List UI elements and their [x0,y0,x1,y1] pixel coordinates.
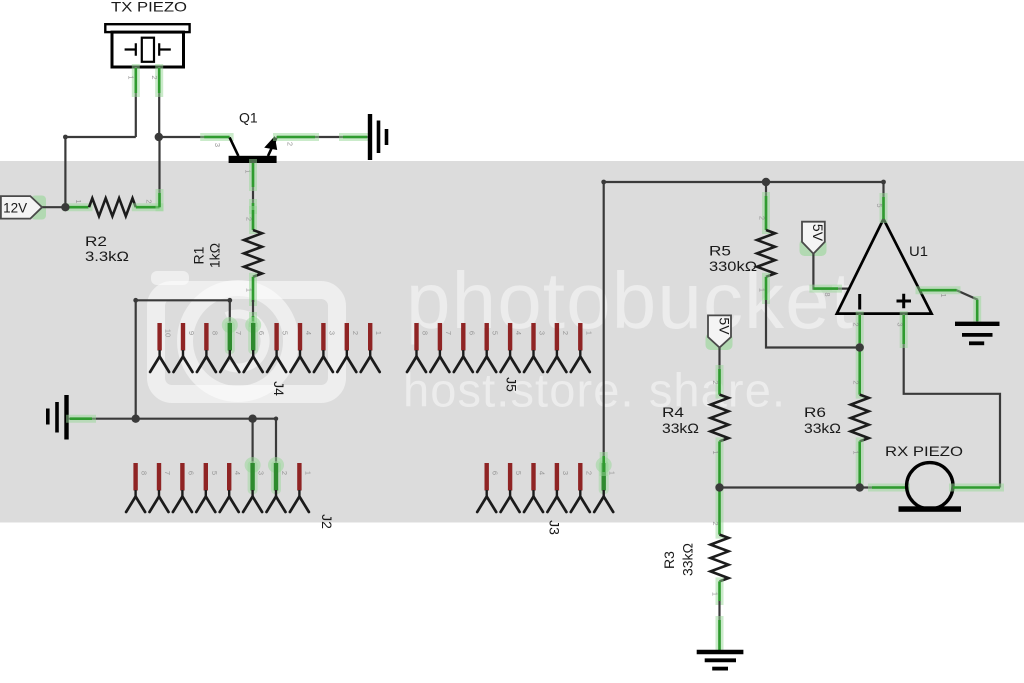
svg-text:7: 7 [234,331,243,335]
svg-text:9: 9 [187,331,196,335]
svg-text:33kΩ: 33kΩ [804,420,841,436]
svg-text:5V: 5V [716,317,732,335]
junction R5 top [762,178,770,186]
ground at R3 [697,652,744,669]
svg-text:10: 10 [164,329,173,337]
svg-text:5: 5 [514,471,523,475]
TX PIEZO pin 1 lead [127,67,136,137]
ground at J2 bus [48,395,67,440]
power flag 5V (R4 bias) [706,315,733,394]
TX PIEZO pin 2 lead [150,67,159,137]
resistor R2 [67,198,160,216]
svg-text:1: 1 [74,199,83,203]
svg-text:6: 6 [257,331,266,335]
resistor R4 [711,380,729,486]
ground at Q1 collector [370,114,387,160]
svg-text:8: 8 [140,471,149,475]
svg-text:1: 1 [711,592,720,596]
resistor R5 [757,182,775,300]
svg-text:33kΩ: 33kΩ [662,420,699,436]
wire RX piezo right [953,484,1000,492]
svg-text:J4: J4 [271,381,287,396]
svg-text:RX PIEZO: RX PIEZO [885,443,963,459]
wire R3 to ground [718,601,720,650]
svg-text:8: 8 [823,292,832,296]
power flag 5V (op-amp supply) [800,222,850,297]
svg-text:2: 2 [280,471,289,475]
junction TX pin 2 node [155,133,163,141]
wire top bus [604,181,884,183]
svg-text:1: 1 [758,288,767,292]
svg-text:5: 5 [491,331,500,335]
svg-text:3: 3 [213,143,222,147]
power flag 12V [1,196,66,220]
connector J5 [407,323,593,392]
svg-text:3: 3 [538,331,547,335]
svg-text:R2: R2 [85,233,107,249]
svg-text:3: 3 [561,471,570,475]
svg-text:1: 1 [939,293,948,297]
wire R2 pin 2 riser [158,137,160,207]
wire bus B to corner [253,417,279,421]
connector J4 [150,317,383,396]
svg-text:7: 7 [444,331,453,335]
wire divider bus [720,486,860,488]
svg-text:2: 2 [711,521,720,525]
svg-text:host.store. share.: host.store. share. [403,364,785,417]
resistor R6 [851,350,869,486]
wire R1 to J4 pin 6 [252,300,254,323]
svg-text:TX PIEZO: TX PIEZO [111,0,187,15]
svg-text:4: 4 [233,471,242,475]
svg-text:2: 2 [851,380,860,384]
svg-text:1: 1 [303,471,312,475]
svg-text:J2: J2 [319,514,335,529]
svg-text:1: 1 [851,450,860,454]
svg-text:J3: J3 [547,520,563,535]
svg-text:2: 2 [711,380,720,384]
wire node to Q1 emitter [159,136,230,138]
junction ground bus A [132,415,140,423]
svg-text:2: 2 [286,142,295,146]
wire bus A to B [136,418,253,420]
svg-text:2: 2 [584,471,593,475]
wire ground lead [69,418,136,420]
wire U1 non-inverting input to RX piezo [895,314,1000,488]
junction divider node [715,483,723,491]
svg-text:2: 2 [758,216,767,220]
svg-text:2: 2 [351,331,360,335]
svg-text:5: 5 [210,471,219,475]
wire 12V riser [64,137,66,207]
wire node to TX pin 1 [63,135,136,140]
svg-text:1: 1 [608,471,617,475]
resistor R3 [711,490,729,601]
piezo TX PIEZO [105,24,189,67]
wire Q1 base to R1 [252,163,254,229]
svg-text:2: 2 [245,217,254,221]
svg-text:1: 1 [245,288,254,292]
svg-text:5V: 5V [810,224,826,242]
svg-text:R6: R6 [804,404,826,420]
svg-text:1: 1 [584,331,593,335]
svg-text:3: 3 [257,471,266,475]
svg-text:5: 5 [875,203,884,207]
svg-text:2: 2 [561,331,570,335]
piezo RX PIEZO [899,463,962,512]
wire R5 to inverting node [766,300,860,348]
svg-text:1: 1 [711,450,720,454]
transistor Q1 [213,136,295,174]
svg-text:Q1: Q1 [239,110,258,126]
junction 12V node [61,203,69,211]
svg-text:8: 8 [421,331,430,335]
op-amp U1 [837,219,932,314]
svg-text:U1: U1 [909,243,928,259]
connector J3 [477,457,617,535]
svg-text:8: 8 [210,331,219,335]
svg-text:R5: R5 [709,243,731,259]
svg-text:3: 3 [327,331,336,335]
junction ground bus B [248,415,256,423]
wire drop to J2 pin 2 [275,419,277,463]
wire ground bus to J4 pin 7 [133,298,232,419]
wire U1 inverting input [851,314,860,348]
svg-text:12V: 12V [3,200,28,216]
svg-text:4: 4 [538,471,547,475]
svg-text:R3: R3 [661,551,677,569]
svg-text:33kΩ: 33kΩ [680,543,696,576]
resistor R1 [244,210,262,302]
svg-text:4: 4 [304,331,313,335]
svg-text:1kΩ: 1kΩ [207,243,223,268]
svg-text:2: 2 [145,199,154,203]
svg-text:330kΩ: 330kΩ [709,258,757,274]
svg-text:R4: R4 [662,404,684,420]
wire J3 pin 1 riser [601,180,606,472]
wire U1 V+ apex [875,180,886,219]
svg-text:6: 6 [491,471,500,475]
wire drop to J2 pin 3 [252,419,254,463]
svg-text:J5: J5 [504,377,520,392]
svg-text:3.3kΩ: 3.3kΩ [85,248,129,264]
svg-text:7: 7 [163,471,172,475]
ground at U1 output [955,324,1000,344]
svg-text:1: 1 [374,331,383,335]
svg-text:5: 5 [281,331,290,335]
svg-text:R1: R1 [191,246,207,264]
connector J2 [126,457,335,529]
svg-text:4: 4 [514,331,523,335]
wire to RX piezo left [860,486,907,488]
svg-text:2: 2 [150,75,159,79]
svg-text:1: 1 [127,75,136,79]
svg-text:2: 2 [851,322,860,326]
svg-text:3: 3 [895,322,904,326]
svg-text:6: 6 [186,471,195,475]
junction inverting node [856,343,864,351]
wire U1 output to ground [920,290,978,322]
wire Q1 collector to ground [276,136,368,138]
svg-text:6: 6 [467,331,476,335]
junction R6 bottom [856,483,864,491]
